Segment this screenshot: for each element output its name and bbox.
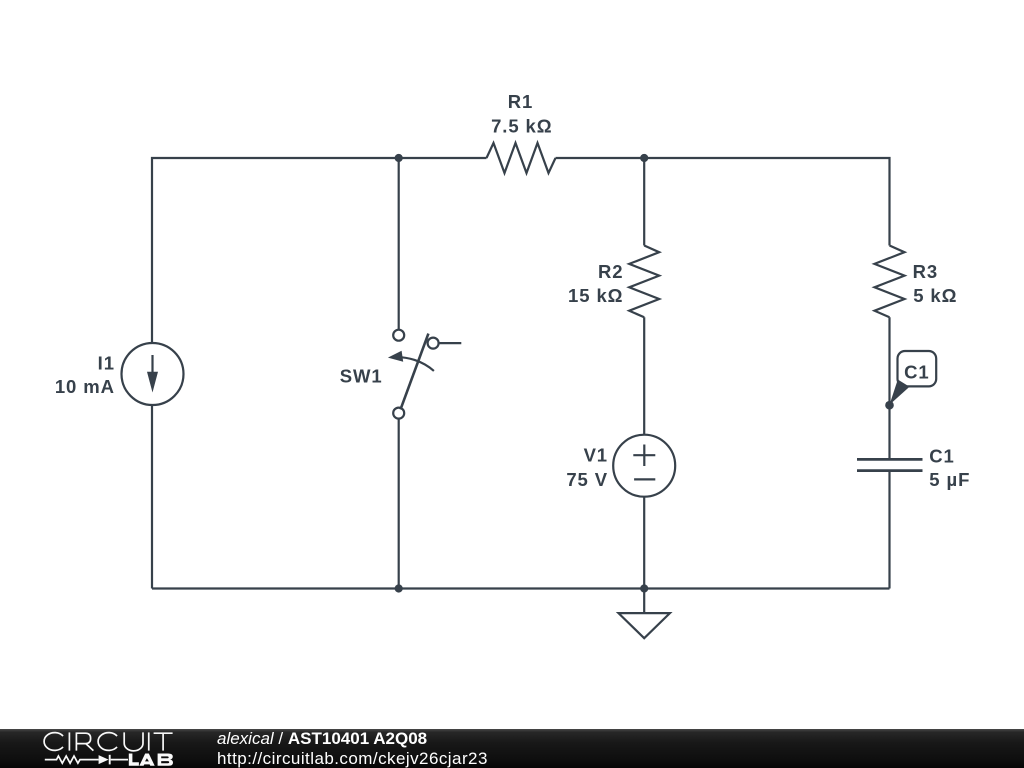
node junction top R2 <box>640 154 648 162</box>
CircuitLab logo CIRCUIT wordmark <box>44 732 173 751</box>
svg-text:alexical / AST10401 A2Q08: alexical / AST10401 A2Q08 <box>217 729 427 748</box>
resistor R2 <box>629 246 659 318</box>
svg-text:75 V: 75 V <box>566 469 608 490</box>
capacitor C1 <box>857 459 923 470</box>
wire bottom-right segment <box>888 472 890 589</box>
svg-text:15 kΩ: 15 kΩ <box>568 285 623 306</box>
wire R3 to C1 <box>888 317 890 458</box>
wire V1 bottom <box>643 497 645 589</box>
node junction bottom ground <box>640 584 648 592</box>
voltage source V1 <box>613 435 675 497</box>
wire top-right segment <box>556 158 890 246</box>
svg-text:V1: V1 <box>584 445 608 466</box>
svg-text:R3: R3 <box>913 261 938 282</box>
svg-text:C1: C1 <box>929 445 954 466</box>
node junction bottom switch <box>395 584 403 592</box>
svg-text:7.5 kΩ: 7.5 kΩ <box>491 115 552 136</box>
node junction top switch <box>395 154 403 162</box>
svg-text:http://circuitlab.com/ckejv26c: http://circuitlab.com/ckejv26cjar23 <box>217 749 488 768</box>
svg-text:10 mA: 10 mA <box>55 376 115 397</box>
svg-text:I1: I1 <box>98 353 115 374</box>
switch SW1 <box>388 330 461 419</box>
svg-text:5 µF: 5 µF <box>929 469 970 490</box>
svg-text:5 kΩ: 5 kΩ <box>913 285 957 306</box>
wire switch top <box>398 158 400 330</box>
wire bottom rail <box>152 587 890 589</box>
wire bottom-left segment <box>151 405 153 589</box>
resistor R3 <box>875 246 905 318</box>
CircuitLab logo LAB wordmark <box>129 754 173 766</box>
node C1 annotation dot <box>885 401 894 410</box>
CircuitLab logo resistor-diode line <box>45 755 128 765</box>
resistor R1 <box>487 143 556 173</box>
wire switch bottom <box>398 419 400 589</box>
current source I1 <box>122 343 184 405</box>
svg-text:R2: R2 <box>598 261 623 282</box>
wire R2 top <box>643 158 645 246</box>
annotation bubble C1 <box>890 351 937 405</box>
svg-text:SW1: SW1 <box>340 365 383 386</box>
footer bar <box>0 729 1024 768</box>
svg-text:C1: C1 <box>904 361 929 382</box>
wire top-left segment <box>152 158 487 343</box>
svg-text:R1: R1 <box>508 91 533 112</box>
ground <box>619 589 670 639</box>
wire R2 to V1 <box>643 317 645 434</box>
